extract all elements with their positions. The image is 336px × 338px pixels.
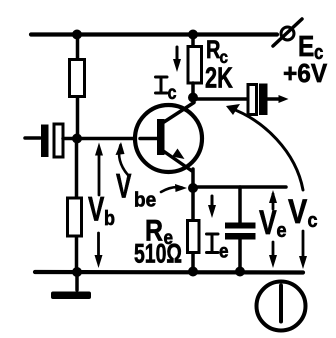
arrow Ie current (208, 196, 216, 218)
wire emitter node horizontal (193, 185, 286, 189)
label Ec (298, 30, 323, 63)
arrow Vb up (95, 143, 103, 196)
wire base (63, 137, 158, 141)
label Vb (88, 191, 115, 231)
wire collector to output cap (193, 97, 248, 101)
label Ic (156, 77, 177, 103)
resistor R1 (upper bias) (70, 60, 85, 97)
node top-Rc junction (188, 30, 198, 40)
svg-text:V: V (288, 192, 307, 231)
svg-text:R: R (206, 36, 220, 64)
figure number circle 1 (257, 282, 306, 331)
arrow Vbe upper (to base wire) (116, 142, 129, 175)
resistor Re (188, 221, 200, 253)
svg-text:+6V: +6V (283, 59, 327, 88)
node bottom-left junction (72, 267, 82, 277)
svg-text:b: b (104, 208, 115, 230)
svg-text:be: be (134, 189, 156, 212)
arrow Vb down (95, 233, 103, 268)
transistor Q1 (135, 103, 202, 189)
resistor Rc (188, 47, 202, 84)
label Ve (259, 204, 287, 242)
svg-text:V: V (259, 204, 277, 242)
svg-text:e: e (277, 220, 287, 242)
wire top supply rail (31, 32, 277, 36)
node bottom-Ce junction (235, 267, 245, 277)
svg-text:c: c (308, 210, 318, 232)
wire R1 branch vertical (76, 35, 80, 140)
svg-text:510Ω: 510Ω (134, 238, 182, 268)
node base junction (72, 134, 82, 144)
svg-text:V: V (116, 168, 132, 205)
wire Re branch (191, 188, 195, 272)
arrow Vc curved (to collector node) (226, 104, 303, 190)
arrow Ve up (269, 190, 277, 209)
arrow Ic current (173, 47, 181, 72)
node top-left junction (72, 30, 82, 40)
ground symbol (51, 272, 91, 299)
wire Ce bottom (238, 239, 242, 272)
arrow Ve down (269, 242, 277, 268)
wire R2 branch vertical (75, 139, 79, 272)
label Re (145, 213, 173, 248)
wire input stub (25, 136, 40, 140)
wire bottom ground rail (35, 270, 303, 275)
svg-text:E: E (298, 30, 314, 62)
capacitor C2 output coupling (248, 84, 268, 116)
svg-text:2K: 2K (205, 63, 233, 95)
svg-text:c: c (168, 82, 177, 104)
node emitter junction (188, 183, 198, 193)
label Vc (288, 192, 318, 233)
wire Rc branch top (191, 35, 195, 51)
label Ie (207, 234, 229, 262)
capacitor Ce bypass (225, 223, 256, 240)
label Rc (206, 36, 228, 67)
svg-text:V: V (88, 191, 105, 229)
arrow Vc down (299, 231, 307, 269)
svg-text:e: e (219, 241, 229, 262)
wire Ce top (238, 187, 242, 224)
node collector junction (188, 93, 198, 103)
terminal Ec (circle with slash) (273, 19, 302, 46)
resistor R2 (lower bias) (68, 198, 82, 236)
capacitor C1 input coupling (41, 124, 63, 157)
label Vbe (116, 168, 156, 211)
wire Rc to collector node (191, 83, 195, 100)
node bottom-Re junction (188, 267, 198, 277)
arrow Vbe right (to emitter node) (161, 184, 187, 192)
wire output with arrow (267, 95, 289, 103)
